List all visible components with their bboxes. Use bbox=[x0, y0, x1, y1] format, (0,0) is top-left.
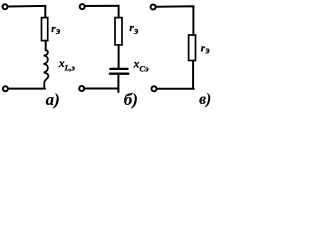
svg-text:rэ: rэ bbox=[129, 22, 138, 37]
svg-text:rэ: rэ bbox=[51, 23, 60, 37]
svg-text:в): в) bbox=[199, 91, 211, 108]
svg-text:xL,э: xL,э bbox=[58, 58, 76, 73]
svg-text:rэ: rэ bbox=[201, 42, 210, 56]
svg-text:а): а) bbox=[46, 90, 60, 109]
svg-text:xCэ: xCэ bbox=[133, 59, 149, 74]
svg-text:б): б) bbox=[124, 90, 138, 109]
